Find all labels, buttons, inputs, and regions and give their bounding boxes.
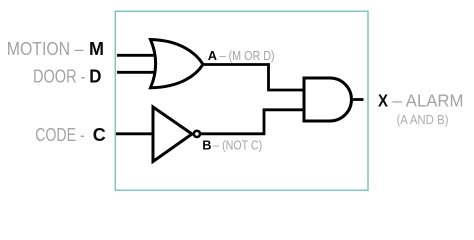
svg-text:MOTION –M: MOTION –M <box>7 38 104 59</box>
svg-text:X–ALARM: X–ALARM <box>378 91 463 111</box>
svg-text:(A AND B): (A AND B) <box>397 113 449 127</box>
svg-text:B– (NOT C): B– (NOT C) <box>202 137 262 152</box>
svg-text:A– (M OR D): A– (M OR D) <box>208 48 275 63</box>
svg-text:DOOR -D: DOOR -D <box>33 66 102 87</box>
svg-text:CODE -C: CODE -C <box>35 124 106 145</box>
